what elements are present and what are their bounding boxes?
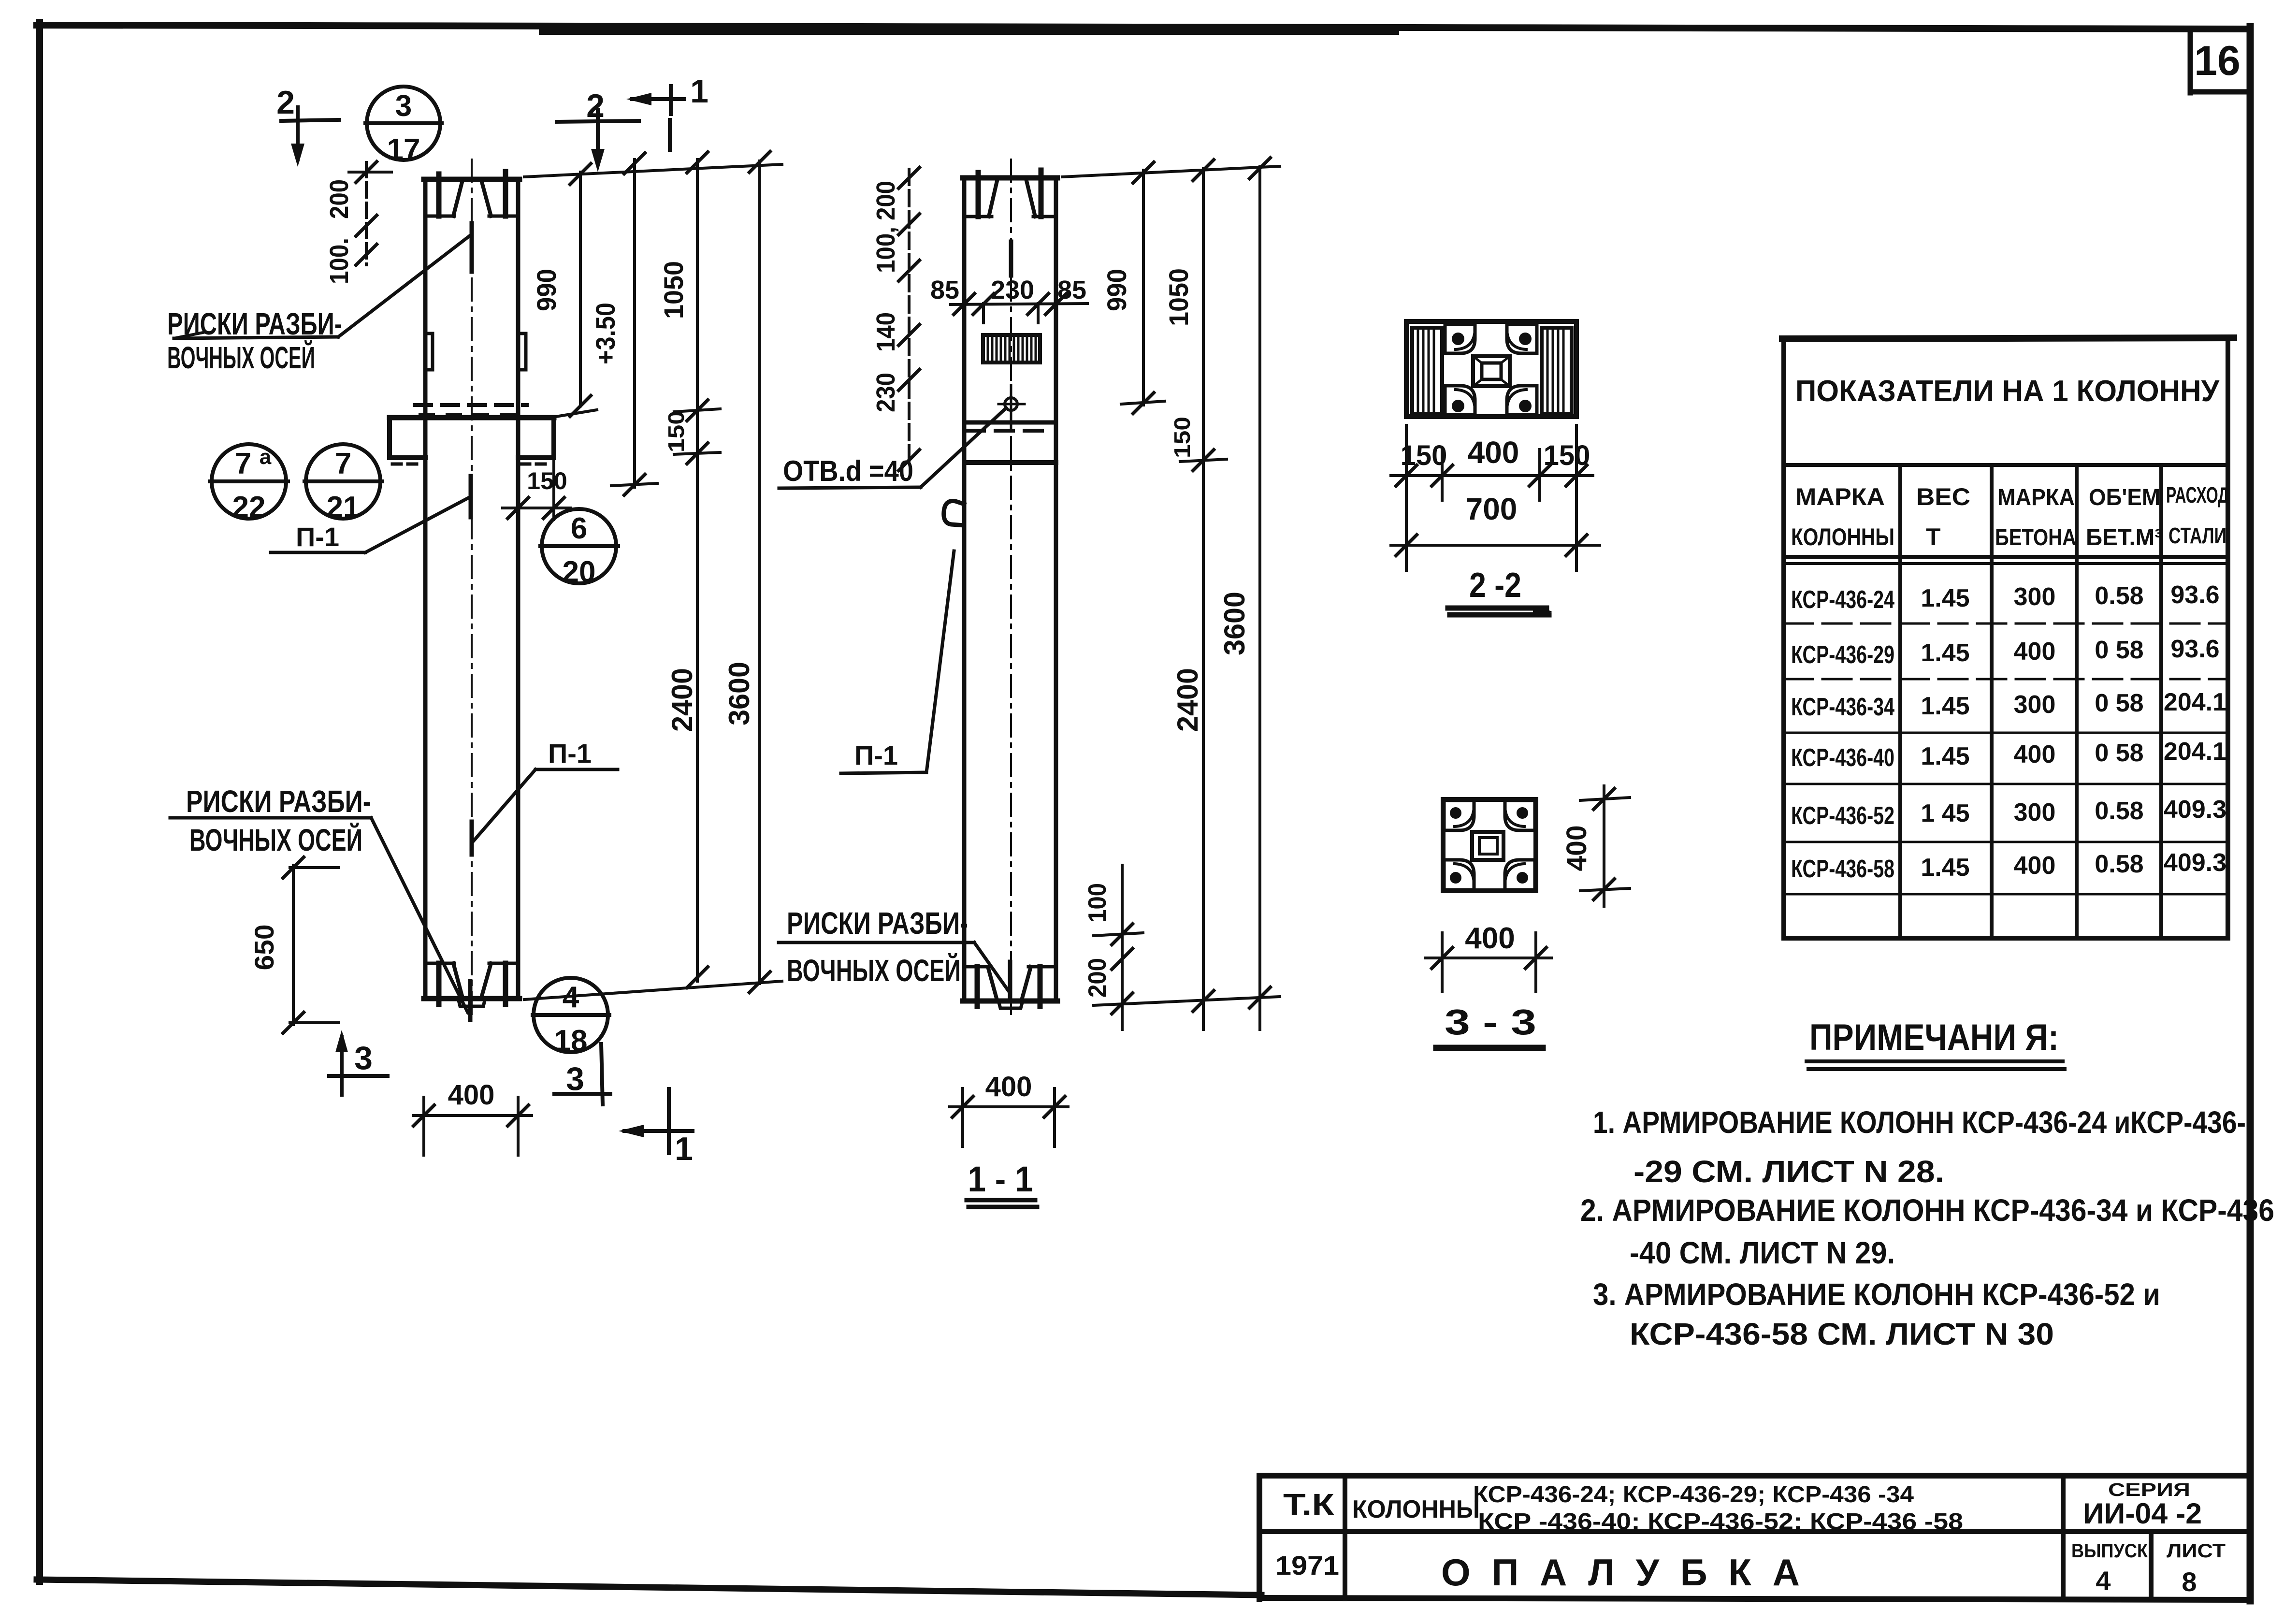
- svg-text:0.58: 0.58: [2095, 850, 2143, 878]
- svg-text:2400: 2400: [1171, 668, 1204, 732]
- svg-text:2 -2: 2 -2: [1469, 566, 1521, 605]
- svg-text:7: 7: [335, 447, 351, 480]
- svg-text:1: 1: [690, 73, 708, 110]
- svg-text:РАСХОД: РАСХОД: [2166, 482, 2229, 507]
- svg-text:РИСКИ РАЗБИ-: РИСКИ РАЗБИ-: [186, 784, 371, 819]
- svg-text:150: 150: [1401, 440, 1447, 471]
- svg-text:ЛИСТ: ЛИСТ: [2167, 1540, 2226, 1562]
- svg-text:1.45: 1.45: [1921, 639, 1969, 667]
- svg-text:1.45: 1.45: [1921, 692, 1969, 720]
- svg-text:3: 3: [354, 1040, 373, 1076]
- svg-text:0 58: 0 58: [2095, 739, 2143, 767]
- svg-text:КСР-436-24; КСР-436-29; КСР-43: КСР-436-24; КСР-436-29; КСР-436 -34: [1473, 1482, 1914, 1508]
- svg-text:П-1: П-1: [548, 738, 592, 768]
- svg-text:ВЕС: ВЕС: [1916, 483, 1970, 510]
- svg-text:100,: 100,: [871, 227, 900, 273]
- svg-text:230: 230: [991, 275, 1034, 304]
- svg-text:300: 300: [2014, 691, 2056, 719]
- svg-text:650: 650: [249, 925, 279, 971]
- svg-text:8: 8: [2182, 1566, 2197, 1597]
- svg-text:МАРКА: МАРКА: [1997, 485, 2075, 510]
- svg-text:150: 150: [664, 411, 689, 452]
- svg-text:ИИ-04 -2: ИИ-04 -2: [2083, 1497, 2202, 1530]
- svg-text:2400: 2400: [666, 668, 698, 732]
- svg-text:300: 300: [2014, 583, 2056, 611]
- svg-text:4: 4: [2096, 1566, 2111, 1596]
- svg-text:3 - 3: 3 - 3: [1445, 1002, 1536, 1042]
- svg-text:200: 200: [1084, 958, 1112, 998]
- svg-text:Т.К: Т.К: [1283, 1487, 1335, 1522]
- svg-text:0 58: 0 58: [2095, 636, 2143, 664]
- svg-text:400: 400: [1465, 922, 1515, 955]
- svg-text:700: 700: [1466, 492, 1518, 526]
- svg-text:100.: 100.: [325, 238, 354, 284]
- svg-text:3: 3: [566, 1060, 584, 1097]
- svg-text:400: 400: [2014, 852, 2056, 880]
- svg-text:85: 85: [1057, 275, 1086, 304]
- svg-text:400: 400: [985, 1071, 1032, 1102]
- svg-text:16: 16: [2194, 38, 2241, 84]
- svg-text:200: 200: [325, 179, 354, 219]
- svg-text:3: 3: [395, 89, 412, 123]
- svg-text:21: 21: [327, 491, 360, 524]
- svg-text:409.3: 409.3: [2164, 796, 2226, 824]
- svg-text:20: 20: [563, 555, 596, 589]
- svg-text:3600: 3600: [723, 662, 755, 725]
- svg-text:1971: 1971: [1275, 1550, 1339, 1580]
- svg-text:ВОЧНЫХ ОСЕЙ: ВОЧНЫХ ОСЕЙ: [167, 340, 315, 375]
- svg-text:93.6: 93.6: [2170, 635, 2219, 663]
- svg-text:1 - 1: 1 - 1: [968, 1159, 1033, 1199]
- svg-text:100: 100: [1084, 883, 1112, 923]
- svg-text:3. АРМИРОВАНИЕ КОЛОНН КСР-436-: 3. АРМИРОВАНИЕ КОЛОНН КСР-436-52 и: [1593, 1277, 2160, 1312]
- svg-text:Т: Т: [1926, 523, 1941, 551]
- svg-text:400: 400: [1561, 826, 1592, 871]
- svg-text:0.58: 0.58: [2095, 797, 2143, 825]
- svg-text:КСР-436-58: КСР-436-58: [1791, 855, 1894, 883]
- svg-text:400: 400: [2014, 638, 2056, 666]
- svg-text:а: а: [260, 445, 272, 469]
- svg-text:КСР-436-40: КСР-436-40: [1791, 744, 1894, 772]
- svg-text:КСР-436-58 СМ. ЛИСТ N 30: КСР-436-58 СМ. ЛИСТ N 30: [1630, 1317, 2054, 1351]
- svg-text:204.1: 204.1: [2164, 688, 2226, 716]
- svg-text:ВОЧНЫХ ОСЕЙ: ВОЧНЫХ ОСЕЙ: [189, 822, 362, 857]
- svg-text:КОЛОННЫ: КОЛОННЫ: [1791, 523, 1894, 551]
- svg-text:КСР-436-24: КСР-436-24: [1791, 586, 1894, 614]
- svg-text:93.6: 93.6: [2170, 581, 2219, 609]
- svg-text:1.45: 1.45: [1921, 854, 1969, 882]
- svg-text:200: 200: [871, 181, 900, 220]
- svg-text:1050: 1050: [1163, 268, 1194, 326]
- svg-text:+3.50: +3.50: [590, 303, 621, 364]
- svg-text:1: 1: [675, 1131, 693, 1167]
- svg-text:22: 22: [232, 491, 266, 524]
- svg-text:1050: 1050: [658, 261, 689, 319]
- svg-text:409.3: 409.3: [2164, 849, 2226, 877]
- svg-text:400: 400: [2014, 740, 2056, 768]
- svg-text:КСР-436-29: КСР-436-29: [1791, 641, 1894, 669]
- svg-text:400: 400: [1468, 435, 1519, 470]
- svg-text:990: 990: [531, 269, 562, 311]
- svg-text:-29 СМ. ЛИСТ N 28.: -29 СМ. ЛИСТ N 28.: [1633, 1154, 1944, 1189]
- svg-text:2: 2: [276, 84, 295, 121]
- svg-text:204.1: 204.1: [2164, 738, 2226, 766]
- svg-text:ПРИМЕЧАНИ Я:: ПРИМЕЧАНИ Я:: [1809, 1017, 2059, 1058]
- svg-text:ВЫПУСК: ВЫПУСК: [2071, 1540, 2148, 1562]
- svg-text:150: 150: [1170, 417, 1195, 458]
- svg-text:РИСКИ РАЗБИ-: РИСКИ РАЗБИ-: [787, 906, 968, 941]
- svg-text:БЕТОНА: БЕТОНА: [1995, 525, 2076, 551]
- svg-text:18: 18: [554, 1024, 588, 1058]
- svg-text:ОТВ.d =40: ОТВ.d =40: [783, 455, 913, 487]
- svg-text:7: 7: [235, 447, 251, 480]
- svg-text:МАРКА: МАРКА: [1795, 483, 1885, 510]
- svg-text:300: 300: [2014, 798, 2056, 826]
- svg-text:230: 230: [871, 373, 900, 412]
- svg-text:3600: 3600: [1218, 592, 1251, 655]
- svg-text:6: 6: [571, 512, 587, 545]
- svg-text:85: 85: [930, 275, 959, 304]
- svg-text:КСР -436-40; КСР-436-52; КСР-4: КСР -436-40; КСР-436-52; КСР-436 -58: [1478, 1509, 1963, 1535]
- svg-text:1. АРМИРОВАНИЕ КОЛОНН КСР-436-: 1. АРМИРОВАНИЕ КОЛОНН КСР-436-24 иКСР-43…: [1593, 1105, 2246, 1140]
- svg-text:1.45: 1.45: [1921, 742, 1969, 770]
- svg-text:0 58: 0 58: [2095, 689, 2143, 717]
- svg-text:-40 СМ. ЛИСТ N 29.: -40 СМ. ЛИСТ N 29.: [1630, 1235, 1895, 1270]
- svg-text:П-1: П-1: [296, 522, 339, 552]
- svg-text:990: 990: [1101, 269, 1132, 311]
- svg-text:2. АРМИРОВАНИЕ КОЛОНН КСР-436-: 2. АРМИРОВАНИЕ КОЛОНН КСР-436-34 и КСР-4…: [1580, 1193, 2274, 1228]
- svg-text:КСР-436-34: КСР-436-34: [1791, 693, 1894, 721]
- svg-text:0.58: 0.58: [2095, 582, 2143, 610]
- svg-text:СТАЛИ: СТАЛИ: [2168, 523, 2226, 548]
- svg-text:КОЛОННЫ: КОЛОННЫ: [1352, 1495, 1480, 1523]
- svg-text:150: 150: [1544, 440, 1590, 471]
- svg-text:150: 150: [527, 467, 567, 494]
- svg-text:ПОКАЗАТЕЛИ НА 1 КОЛОННУ: ПОКАЗАТЕЛИ НА 1 КОЛОННУ: [1795, 375, 2220, 408]
- svg-text:140: 140: [871, 312, 900, 352]
- svg-text:4: 4: [563, 981, 579, 1014]
- svg-text:О П А Л У Б К А: О П А Л У Б К А: [1441, 1551, 1800, 1594]
- svg-text:КСР-436-52: КСР-436-52: [1791, 802, 1894, 830]
- svg-text:БЕТ.М³: БЕТ.М³: [2086, 525, 2162, 551]
- svg-text:П-1: П-1: [854, 740, 898, 770]
- svg-text:ОБ'ЕМ: ОБ'ЕМ: [2089, 485, 2160, 510]
- svg-text:400: 400: [448, 1079, 495, 1111]
- svg-text:1.45: 1.45: [1921, 584, 1969, 612]
- svg-text:17: 17: [387, 133, 420, 166]
- svg-text:ВОЧНЫХ ОСЕЙ: ВОЧНЫХ ОСЕЙ: [787, 953, 961, 988]
- svg-text:2: 2: [586, 87, 605, 124]
- svg-text:1 45: 1 45: [1921, 799, 1969, 827]
